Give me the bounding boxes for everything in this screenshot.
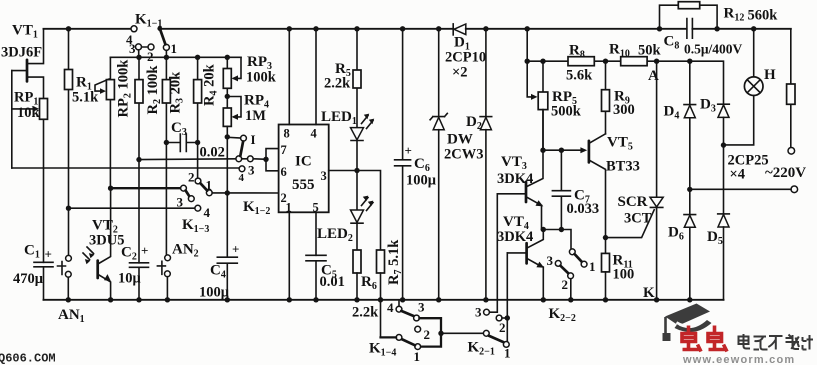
- svg-text:3: 3: [418, 300, 425, 315]
- svg-text:+: +: [405, 143, 412, 158]
- switch K1-3: [181, 178, 213, 211]
- svg-text:3: 3: [547, 253, 554, 268]
- wire gate line down: [11, 71, 13, 168]
- wire VT3-base column down to K2-1 contact3: [489, 194, 497, 312]
- svg-text:R4 20k: R4 20k: [202, 63, 220, 106]
- capacitor C1 470u: [34, 247, 53, 300]
- svg-text:D3: D3: [700, 97, 716, 115]
- svg-text:I: I: [251, 132, 256, 147]
- node bus R4: [195, 55, 200, 60]
- node rail R11: [603, 297, 608, 302]
- switch K2-1: [483, 309, 510, 347]
- svg-text:R12: R12: [724, 6, 745, 24]
- node bus R2: [136, 55, 141, 60]
- svg-text:3: 3: [321, 169, 327, 183]
- svg-text:3: 3: [475, 305, 482, 320]
- svg-text:K1−2: K1−2: [243, 199, 270, 217]
- node pin3/LED column: [354, 168, 359, 173]
- svg-text:4: 4: [204, 205, 211, 220]
- node RP2/VT2/wire-188: [108, 186, 113, 191]
- wire to K2-1 pivot: [441, 332, 483, 334]
- potentiometer RP3 100k: [223, 57, 241, 88]
- svg-text:4: 4: [387, 300, 394, 315]
- svg-text:K1−4: K1−4: [369, 341, 396, 359]
- node rail D2: [483, 297, 488, 302]
- svg-text:1M: 1M: [245, 108, 266, 124]
- resistor R11 100: [602, 253, 610, 299]
- wire y=150 to VT5 emitter: [543, 149, 584, 151]
- svg-text:1: 1: [414, 349, 421, 364]
- svg-text:1: 1: [504, 346, 511, 361]
- phototransistor VT2 3DU5: [83, 188, 111, 300]
- switch K1-1: [131, 26, 169, 58]
- svg-text:K1−1: K1−1: [135, 12, 162, 30]
- node RP3/RP4: [225, 94, 230, 99]
- node D3 / lamp H: [721, 142, 726, 147]
- node R11 top / gate: [603, 235, 608, 240]
- svg-text:VT5: VT5: [607, 135, 633, 153]
- svg-text:0.02: 0.02: [200, 145, 225, 161]
- transistor VT1 (FET 3DJ6F): [12, 29, 44, 99]
- svg-text:2.2k: 2.2k: [352, 305, 379, 321]
- wire pin4 to rail: [315, 29, 317, 125]
- svg-text:Q606.COM: Q606.COM: [0, 352, 56, 365]
- svg-text:50k: 50k: [638, 43, 662, 59]
- svg-text:300: 300: [613, 102, 635, 118]
- svg-text:555: 555: [292, 177, 315, 193]
- svg-text:~220V: ~220V: [765, 165, 806, 181]
- node rail DW: [436, 26, 441, 31]
- svg-text:SCR: SCR: [618, 194, 648, 210]
- svg-text:VT1: VT1: [12, 23, 38, 41]
- svg-text:3DU5: 3DU5: [89, 233, 124, 249]
- node pin2 wire / C4 column: [225, 190, 230, 195]
- svg-text:0.033: 0.033: [567, 201, 600, 217]
- node rail DW: [436, 297, 441, 302]
- terminal ~220V bottom: [791, 186, 798, 193]
- svg-text:R8: R8: [569, 43, 585, 61]
- svg-text:2: 2: [562, 277, 569, 292]
- svg-text:R10: R10: [609, 42, 630, 60]
- transistor VT3 3DK4: [497, 110, 543, 230]
- svg-text:IC: IC: [295, 154, 312, 170]
- wire bottom ground rail: [44, 299, 724, 301]
- logo text dianzi xiazaizhan: [739, 334, 814, 350]
- node rail C2: [136, 297, 141, 302]
- wire bus y=57.3: [110, 56, 241, 58]
- node bus left corner: [525, 59, 530, 64]
- logo text 虫虫 (red): [682, 326, 727, 352]
- svg-text:C1: C1: [24, 243, 40, 261]
- pushbutton AN2: [157, 255, 170, 300]
- svg-text:100: 100: [613, 267, 635, 283]
- node rail AN2: [165, 297, 170, 302]
- wire bracket to pins 7 and 6: [266, 149, 279, 171]
- svg-text:3DJ6F: 3DJ6F: [1, 45, 42, 61]
- wire RP4 bottom column to C4: [226, 126, 228, 257]
- potentiometer RP4 1M: [223, 88, 241, 126]
- capacitor C4 100u: [217, 242, 239, 300]
- svg-text:2CP10: 2CP10: [445, 50, 486, 66]
- svg-text:R2 100k: R2 100k: [145, 65, 163, 115]
- capacitor C8 0.5u/400V (series on rail): [687, 19, 791, 39]
- potentiometer RP2: [106, 57, 114, 188]
- resistor R1 5.1k: [65, 29, 73, 256]
- svg-text:3DK4: 3DK4: [497, 229, 533, 245]
- resistor R10 50k: [621, 57, 647, 66]
- wire K1-3 pivot to 555 pin2: [212, 192, 278, 194]
- resistor R7 5.1k: [377, 250, 385, 337]
- svg-text:AN1: AN1: [58, 307, 85, 325]
- wire VT4-base column down to K2-1: [506, 253, 508, 342]
- svg-text:+: +: [45, 247, 52, 262]
- svg-text:R6: R6: [361, 274, 377, 292]
- capacitor C2 10u: [130, 243, 149, 300]
- svg-text:4: 4: [311, 127, 318, 141]
- svg-text:LED2: LED2: [317, 226, 353, 244]
- wire to K1-3 contact4 (y=208): [69, 207, 196, 209]
- wire VT1 source column to C1: [43, 119, 45, 262]
- node R2/wire-159: [136, 157, 141, 162]
- node RP4 bottom / contact I: [225, 134, 230, 139]
- wire pin1 to ground rail: [288, 212, 290, 299]
- svg-text:D4: D4: [664, 104, 680, 122]
- svg-text:5.6k: 5.6k: [566, 68, 593, 84]
- lamp H: [724, 29, 764, 145]
- svg-text:8: 8: [284, 127, 290, 141]
- svg-text:H: H: [764, 67, 776, 83]
- svg-text:C4: C4: [210, 263, 226, 281]
- switch K1-2: [236, 135, 266, 171]
- node K1-4 / K2-1 link: [438, 331, 443, 336]
- diode D6: [684, 189, 696, 299]
- resistor R12 560k (parallel loop): [660, 2, 718, 29]
- node rail D2: [483, 26, 488, 31]
- wire top rail right of K1-1: [160, 28, 453, 30]
- svg-text:1: 1: [589, 259, 596, 274]
- svg-text:100μ: 100μ: [199, 285, 230, 301]
- svg-text:3CT: 3CT: [624, 211, 652, 227]
- svg-text:AN2: AN2: [172, 242, 199, 260]
- node rail AN1: [66, 297, 71, 302]
- svg-text:1: 1: [171, 41, 178, 56]
- resistor R9 300: [602, 61, 610, 134]
- SCR 3CT: [650, 61, 663, 300]
- svg-text:1: 1: [206, 178, 213, 193]
- node bus RP3: [225, 55, 230, 60]
- node rail VT4e: [541, 297, 546, 302]
- wire to contact I: [227, 136, 240, 139]
- wire y=188 to K1-3: [111, 187, 181, 189]
- node A: [654, 59, 659, 64]
- node rail R7: [378, 297, 383, 302]
- node R3 / C3 left: [164, 140, 169, 145]
- diode D1 2CP10 (on rail, pointing left): [453, 24, 686, 35]
- svg-text:D6: D6: [668, 225, 684, 243]
- diode D4: [684, 61, 696, 189]
- svg-text:0.5μ/400V: 0.5μ/400V: [684, 42, 743, 57]
- wire pin3 output: [329, 171, 381, 251]
- svg-text:6: 6: [281, 165, 287, 179]
- resistor R5 2.2k: [353, 29, 361, 128]
- svg-text:2: 2: [499, 320, 506, 335]
- svg-text:3: 3: [177, 195, 184, 210]
- wire RP2 wiper hook: [95, 79, 109, 91]
- pushbutton AN1: [58, 255, 72, 299]
- node rail C6: [400, 297, 405, 302]
- svg-text:C3: C3: [171, 120, 187, 138]
- svg-text:560k: 560k: [748, 8, 779, 24]
- wire y=159 to K1-2 pivot: [139, 158, 236, 161]
- capacitor C5 0.01: [306, 255, 326, 299]
- LED LED2: [351, 171, 374, 251]
- svg-text:×4: ×4: [730, 167, 746, 183]
- svg-text:LED1: LED1: [321, 109, 357, 127]
- node D4/D6 lower bus: [687, 187, 692, 192]
- wire y=229.5 emitter/collector node to K2-2: [543, 230, 571, 250]
- wire gate to SCR: [606, 210, 655, 238]
- node rail K2-2: [568, 297, 573, 302]
- op IC 555 box: [279, 125, 329, 213]
- wire RP5 wiper column from rail: [527, 29, 534, 97]
- wire top rail left: [44, 28, 132, 30]
- resistor R8 5.6k: [568, 57, 594, 66]
- svg-text:+: +: [141, 243, 148, 258]
- capacitor C3 0.02: [166, 134, 197, 152]
- node R4 / C3 right: [195, 140, 200, 145]
- potentiometer RP5 500k: [538, 61, 548, 150]
- node bus R3: [164, 55, 169, 60]
- node R9 top: [603, 59, 608, 64]
- svg-text:VT3: VT3: [501, 154, 527, 172]
- svg-text:3: 3: [248, 163, 255, 178]
- wire lower AC bus: [690, 188, 791, 190]
- node bus D4: [687, 59, 692, 64]
- fuse: [787, 29, 795, 148]
- svg-text:R7 5.1k: R7 5.1k: [386, 239, 404, 285]
- node rail C5: [313, 297, 318, 302]
- svg-text:DW: DW: [447, 132, 473, 148]
- resistor R3 20k: [162, 57, 170, 255]
- diode D2: [480, 29, 492, 300]
- svg-text:BT33: BT33: [606, 159, 640, 175]
- svg-text:R3 20k: R3 20k: [168, 71, 186, 114]
- diode D3: [718, 104, 730, 214]
- svg-text:2: 2: [188, 170, 195, 185]
- logo graduation cap: [663, 304, 712, 342]
- resistor R2 100k: [135, 57, 143, 262]
- svg-text:C8: C8: [664, 34, 680, 52]
- svg-text:3: 3: [129, 41, 136, 56]
- svg-text:3DK4: 3DK4: [497, 171, 533, 187]
- svg-text:K2−1: K2−1: [468, 340, 495, 358]
- node rail C4: [225, 297, 230, 302]
- svg-text:RP2 100k: RP2 100k: [116, 59, 134, 118]
- wire pin8 to rail: [288, 29, 290, 125]
- terminal ~220V top: [788, 148, 795, 155]
- node rail VT2: [108, 297, 113, 302]
- node R1 top rail: [66, 26, 71, 31]
- node bracket pins 7/6: [263, 157, 268, 162]
- svg-text:10k: 10k: [17, 105, 41, 121]
- svg-text:470μ: 470μ: [13, 271, 44, 287]
- svg-text:0.01: 0.01: [320, 274, 345, 290]
- svg-text:+: +: [232, 242, 239, 257]
- svg-text:K2−2: K2−2: [549, 306, 576, 324]
- capacitor C6 100u: [395, 29, 412, 300]
- node C7 top: [559, 148, 564, 153]
- svg-text:2: 2: [424, 327, 431, 342]
- svg-text:100k: 100k: [246, 70, 277, 86]
- switch K2-2: [555, 249, 587, 300]
- potentiometer RP1 10k: [12, 99, 48, 120]
- node R1 / AN1-wire junction: [66, 206, 71, 211]
- svg-text:D5: D5: [707, 229, 723, 247]
- resistor R6 2.2k: [353, 250, 361, 300]
- svg-text:4: 4: [239, 172, 245, 184]
- svg-text:500k: 500k: [551, 104, 582, 120]
- transistor VT5 BT33 (UJT): [589, 134, 606, 254]
- resistor R4 20k: [194, 57, 202, 178]
- node emitter wire y=150 left: [540, 148, 545, 153]
- wire node to K1-2 contact3 (y=168): [12, 167, 240, 169]
- svg-text:www.eeworm.com: www.eeworm.com: [682, 354, 795, 365]
- diode D5: [718, 214, 730, 300]
- svg-text:2CW3: 2CW3: [444, 147, 483, 163]
- svg-text:7: 7: [281, 143, 287, 157]
- zener DW 2CW3: [430, 29, 447, 300]
- svg-text:×2: ×2: [452, 65, 468, 81]
- node rail pin1: [287, 297, 292, 302]
- svg-text:C2: C2: [121, 245, 137, 263]
- svg-text:100μ: 100μ: [406, 173, 437, 189]
- svg-text:2.2k: 2.2k: [324, 76, 351, 92]
- switch K1-4: [381, 300, 442, 350]
- wire pin5 to C5: [315, 212, 317, 255]
- node rail D6: [687, 297, 692, 302]
- capacitor C7 0.033: [552, 150, 570, 229]
- svg-text:K: K: [643, 285, 655, 301]
- node rail SCR K: [654, 297, 659, 302]
- wire bus y=61.2 (node A bus): [527, 61, 723, 104]
- node rail R6: [354, 297, 359, 302]
- transistor VT4 3DK4: [507, 230, 544, 300]
- LED LED1: [351, 114, 375, 171]
- svg-text:C6: C6: [414, 156, 430, 174]
- svg-text:10μ: 10μ: [118, 271, 142, 287]
